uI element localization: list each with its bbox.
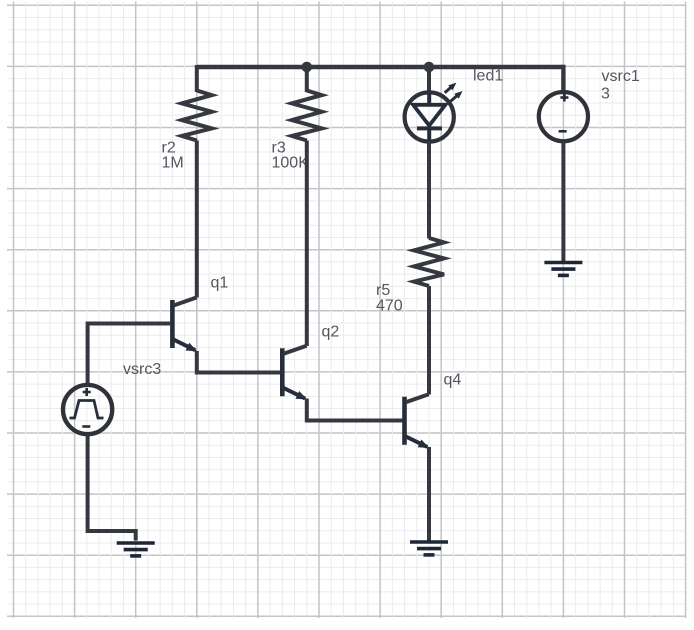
- wire: led1 to r5: [427, 142, 431, 239]
- wire: r5 to q4 collector: [427, 286, 431, 395]
- svg-text:1M: 1M: [162, 155, 184, 172]
- voltage source vsrc1: [539, 92, 588, 141]
- svg-text:q1: q1: [211, 275, 229, 292]
- svg-text:3: 3: [601, 86, 610, 103]
- wire: r3 to q2 collector: [305, 141, 309, 347]
- wire: q1 emitter down and right to q2 base: [197, 351, 281, 373]
- node junction at r3 top: [302, 62, 313, 73]
- wire: junction to led1: [427, 67, 431, 94]
- svg-text:470: 470: [376, 298, 403, 315]
- wire: q4 emitter to ground: [427, 447, 431, 541]
- label vsrc1 value 3: [601, 68, 640, 103]
- wire: rail to r3: [305, 65, 309, 92]
- LED led1: [405, 83, 463, 142]
- ground for q4: [410, 542, 448, 555]
- label r3 value 100K: [272, 140, 310, 172]
- wire: vsrc3 to ground: [88, 434, 136, 541]
- label r2 value 1M: [162, 140, 184, 172]
- wire: r2 to q1 collector: [195, 141, 199, 298]
- svg-text:r5: r5: [376, 282, 390, 299]
- ground for vsrc1: [544, 263, 582, 276]
- ground for vsrc3: [117, 543, 155, 556]
- voltage source vsrc3 (pulse): [63, 385, 112, 434]
- wire: q2 emitter down and right to q4 base: [307, 399, 403, 421]
- svg-text:led1: led1: [473, 68, 503, 85]
- svg-text:q4: q4: [444, 372, 462, 389]
- node junction at led1 top: [424, 62, 435, 73]
- wire: top power rail: [197, 65, 564, 69]
- transistor q2: [282, 346, 307, 400]
- resistor r2: [182, 91, 212, 141]
- transistor q4: [405, 394, 430, 448]
- transistor q1: [172, 297, 197, 351]
- svg-text:q2: q2: [322, 324, 340, 341]
- wire: q1 base to vsrc3: [88, 324, 171, 386]
- resistor r5: [414, 238, 444, 286]
- svg-text:vsrc3: vsrc3: [123, 361, 161, 378]
- wire: rail to vsrc1: [561, 67, 563, 92]
- label r5 value 470: [376, 282, 403, 315]
- svg-text:vsrc1: vsrc1: [602, 68, 640, 85]
- resistor r3: [292, 91, 322, 141]
- wire: vsrc1 to ground: [561, 141, 565, 261]
- svg-text:100K: 100K: [272, 155, 310, 172]
- wire: rail to r2: [195, 65, 199, 92]
